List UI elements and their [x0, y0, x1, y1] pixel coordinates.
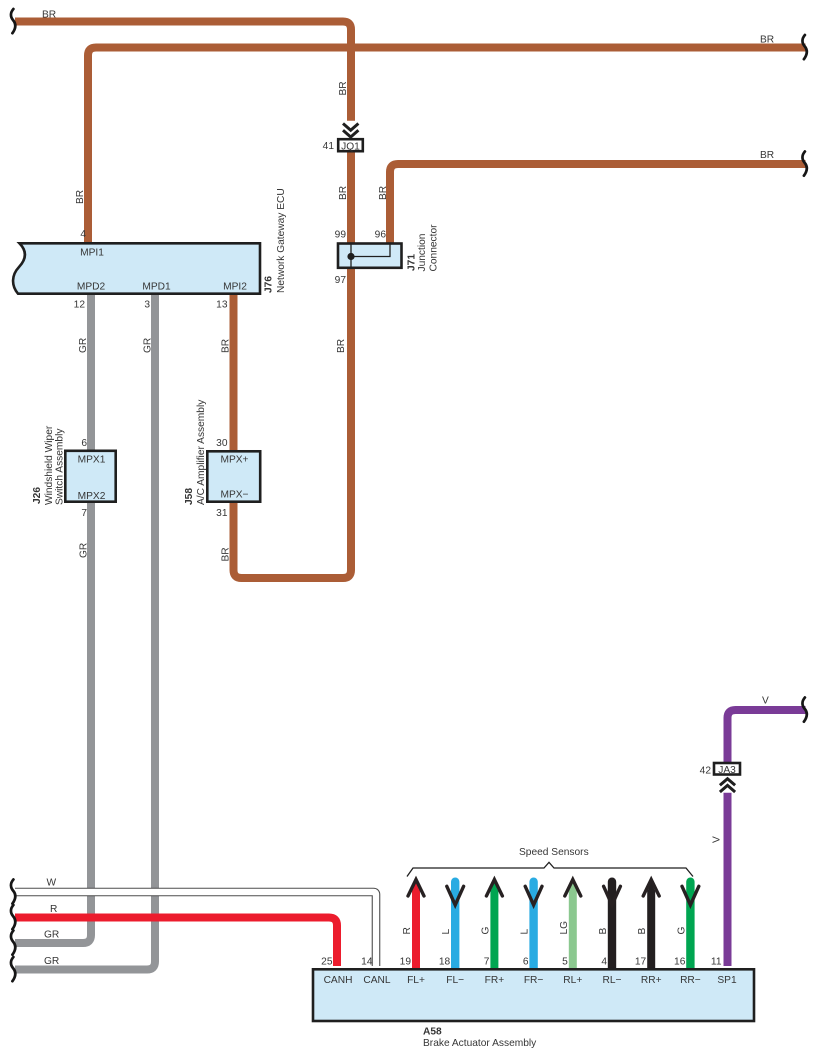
svg-text:BR: BR: [760, 150, 774, 161]
svg-text:B: B: [598, 928, 609, 935]
svg-text:GR: GR: [78, 338, 89, 353]
svg-text:Switch Assembly: Switch Assembly: [55, 428, 66, 505]
svg-text:31: 31: [216, 508, 228, 519]
svg-text:GR: GR: [79, 543, 90, 558]
svg-text:19: 19: [400, 957, 412, 968]
svg-text:14: 14: [361, 957, 373, 968]
svg-text:3: 3: [144, 300, 150, 311]
svg-text:RR+: RR+: [641, 975, 662, 986]
svg-text:GR: GR: [44, 930, 59, 941]
svg-text:J76: J76: [264, 276, 275, 293]
svg-text:L: L: [520, 929, 531, 935]
svg-text:CANH: CANH: [324, 975, 353, 986]
svg-text:FR−: FR−: [524, 975, 544, 986]
svg-text:16: 16: [674, 957, 686, 968]
svg-text:Junction: Junction: [417, 234, 428, 272]
svg-text:MPX1: MPX1: [78, 455, 106, 466]
svg-text:RR−: RR−: [680, 975, 701, 986]
svg-text:MPX−: MPX−: [220, 489, 248, 500]
svg-text:W: W: [47, 878, 57, 889]
svg-text:5: 5: [562, 957, 568, 968]
svg-text:6: 6: [81, 438, 87, 449]
svg-text:11: 11: [711, 957, 722, 968]
svg-text:RL+: RL+: [563, 975, 582, 986]
svg-text:MPI2: MPI2: [223, 282, 247, 293]
svg-text:Windshield Wiper: Windshield Wiper: [44, 425, 55, 505]
svg-text:R: R: [50, 904, 57, 915]
svg-text:4: 4: [601, 957, 607, 968]
svg-text:BR: BR: [760, 35, 774, 46]
svg-text:A/C Amplifier Assembly: A/C Amplifier Assembly: [196, 399, 207, 505]
svg-text:CANL: CANL: [363, 975, 391, 986]
svg-text:RL−: RL−: [603, 975, 622, 986]
svg-text:L: L: [441, 929, 452, 935]
svg-text:BR: BR: [338, 81, 349, 95]
svg-text:13: 13: [216, 300, 228, 311]
svg-text:BR: BR: [338, 186, 349, 200]
svg-text:J58: J58: [184, 488, 195, 505]
svg-text:18: 18: [439, 957, 451, 968]
svg-text:96: 96: [375, 230, 387, 241]
svg-text:J26: J26: [32, 487, 43, 504]
svg-text:FL+: FL+: [407, 975, 425, 986]
svg-text:GR: GR: [143, 338, 154, 353]
svg-text:7: 7: [484, 957, 490, 968]
svg-text:JQ1: JQ1: [341, 141, 360, 152]
svg-text:V: V: [712, 836, 723, 843]
svg-text:JA3: JA3: [718, 765, 736, 776]
svg-text:BR: BR: [75, 190, 86, 204]
svg-text:MPI1: MPI1: [80, 248, 104, 259]
svg-text:12: 12: [74, 300, 86, 311]
svg-text:41: 41: [323, 141, 335, 152]
svg-text:B: B: [637, 928, 648, 935]
svg-text:BR: BR: [221, 547, 232, 561]
svg-text:25: 25: [321, 957, 333, 968]
svg-text:LG: LG: [559, 921, 570, 935]
svg-text:7: 7: [81, 508, 87, 519]
svg-text:A58: A58: [423, 1027, 442, 1038]
svg-text:MPD1: MPD1: [142, 282, 171, 293]
svg-text:FR+: FR+: [485, 975, 505, 986]
svg-text:Brake Actuator Assembly: Brake Actuator Assembly: [423, 1038, 537, 1049]
svg-text:6: 6: [523, 957, 529, 968]
svg-text:97: 97: [335, 275, 347, 286]
svg-text:30: 30: [216, 438, 228, 449]
svg-text:17: 17: [635, 957, 647, 968]
svg-text:Network Gateway ECU: Network Gateway ECU: [276, 188, 287, 293]
svg-text:Connector: Connector: [429, 224, 440, 272]
svg-text:G: G: [676, 927, 687, 935]
svg-text:MPX2: MPX2: [78, 491, 106, 502]
svg-text:42: 42: [700, 766, 712, 777]
svg-text:FL−: FL−: [446, 975, 464, 986]
svg-text:J71: J71: [407, 254, 418, 271]
svg-text:BR: BR: [378, 186, 389, 200]
svg-text:GR: GR: [44, 956, 59, 967]
svg-text:4: 4: [80, 229, 86, 240]
svg-text:MPX+: MPX+: [220, 455, 248, 466]
svg-text:SP1: SP1: [717, 975, 737, 986]
svg-text:Speed Sensors: Speed Sensors: [519, 847, 589, 858]
svg-text:BR: BR: [221, 339, 232, 353]
svg-text:BR: BR: [336, 339, 347, 353]
svg-text:BR: BR: [42, 10, 56, 21]
svg-text:R: R: [402, 927, 413, 934]
svg-text:G: G: [480, 927, 491, 935]
svg-text:MPD2: MPD2: [77, 282, 106, 293]
svg-text:99: 99: [335, 230, 347, 241]
svg-text:V: V: [762, 696, 769, 707]
